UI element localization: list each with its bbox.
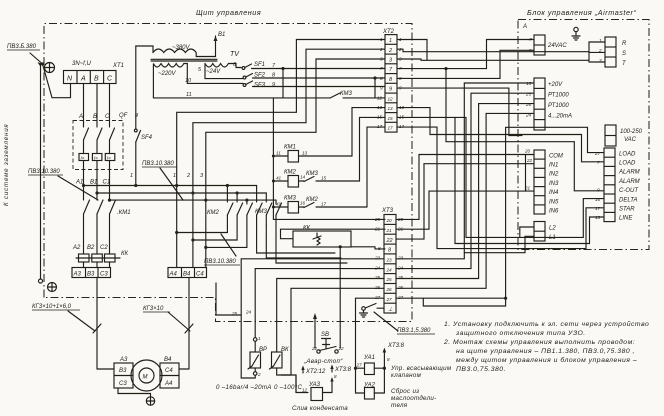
svg-text:ХТ2:12: ХТ2:12 <box>305 369 326 375</box>
wire XT3:24 left to BP1 <box>255 269 384 338</box>
svg-text:27: 27 <box>594 151 601 156</box>
svg-text:13: 13 <box>595 215 601 220</box>
contactor KM1 main contacts <box>84 200 116 254</box>
wire XT3:20 right to COM <box>396 155 526 220</box>
QF pole C <box>105 128 115 161</box>
svg-text:ALARM: ALARM <box>618 170 640 176</box>
svg-text:SB: SB <box>321 332 329 338</box>
svg-text:между щитом управления и б: между щитом управления и блоком управлен… <box>456 356 637 364</box>
wire XT2:17 right to STAR <box>397 127 604 249</box>
svg-text:1. Установку подключить к: 1. Установку подключить к эл. сети через… <box>444 320 649 328</box>
svg-text:ПВ3.1,5.380: ПВ3.1,5.380 <box>397 328 431 334</box>
wire 11 drop to KM3 aux <box>283 69 330 98</box>
svg-text:2: 2 <box>379 47 383 52</box>
svg-text:УА1: УА1 <box>363 355 375 361</box>
svg-text:9: 9 <box>380 86 383 91</box>
24VAC block <box>529 35 567 55</box>
wire XT2:13 down to KM1 <box>352 108 385 156</box>
svg-text:4: 4 <box>135 113 138 119</box>
svg-text:SF3: SF3 <box>254 83 266 89</box>
L2 L1 block <box>534 222 556 242</box>
ground bus wire (left) <box>41 62 45 279</box>
svg-text:16: 16 <box>300 201 306 206</box>
bus 3 <box>110 199 277 201</box>
svg-text:ПВ3.Б.380: ПВ3.Б.380 <box>7 44 37 50</box>
wire XT3:26 left to BK bottom <box>281 288 384 375</box>
KM3 bottoms staircase right <box>257 226 347 263</box>
cable КГ3х10 label <box>143 306 190 331</box>
solenoid YA3 <box>302 374 337 401</box>
label ПВ3.10.380 (lower) <box>204 234 240 265</box>
svg-text:DELTA: DELTA <box>619 198 637 204</box>
svg-text:на щите управления – ПВ1.1.3: на щите управления – ПВ1.1.380, ПВ3.0,75… <box>456 348 635 355</box>
svg-text:8: 8 <box>380 76 383 81</box>
wire 10 <box>187 82 243 84</box>
svg-text:24: 24 <box>245 310 252 315</box>
switch SF2 <box>243 74 385 79</box>
wire XT3:25 left to BK <box>277 279 384 353</box>
wire 7 branch to C-OUT <box>446 69 604 191</box>
svg-text:12: 12 <box>377 96 383 101</box>
svg-text:7: 7 <box>597 160 600 165</box>
svg-text:20: 20 <box>524 149 531 154</box>
node SF4 on bus1 <box>134 184 137 187</box>
label XT2:12 arrow <box>301 366 326 376</box>
motor terminal box left <box>114 363 133 388</box>
node wire8 <box>373 76 376 79</box>
wire: ground to XT1 N <box>43 64 71 98</box>
COM block stub wires <box>526 155 535 192</box>
svg-text:15: 15 <box>526 81 532 86</box>
RST block <box>598 37 627 67</box>
wire XT3:22 right to IN1 <box>396 164 526 239</box>
svg-text:R: R <box>622 41 627 47</box>
svg-text:ХТ2: ХТ2 <box>382 29 395 35</box>
svg-text:В1: В1 <box>90 180 97 186</box>
label XT3:8 arrow (SB) <box>330 365 351 374</box>
svg-text:23: 23 <box>386 258 393 263</box>
svg-text:КМ3: КМ3 <box>284 196 297 202</box>
svg-text:защитного отключения типа У: защитного отключения типа УЗО. <box>455 330 586 337</box>
terminal strip A4 B4 C4 <box>168 268 207 278</box>
LOAD outputs block <box>594 148 640 222</box>
KM2 bottoms staircase to phases <box>175 226 247 249</box>
coil KM3 + aux KM2 <box>273 196 367 214</box>
wire XT3:27 left to YA1/YA2 <box>354 298 384 393</box>
svg-text:КМ3: КМ3 <box>340 91 353 97</box>
pressure sensor BP <box>248 336 267 378</box>
QF pole A <box>79 128 89 161</box>
svg-text:26: 26 <box>525 102 532 107</box>
node bus1 A <box>82 184 85 187</box>
svg-text:13: 13 <box>302 151 308 156</box>
svg-text:IN2: IN2 <box>549 172 559 178</box>
svg-text:8: 8 <box>387 357 390 362</box>
svg-text:17: 17 <box>388 126 394 131</box>
svg-text:I>: I> <box>107 156 111 161</box>
svg-text:17: 17 <box>377 124 383 129</box>
svg-text:23: 23 <box>397 256 404 261</box>
wire XT3:26 right to 4-20mA <box>396 113 534 288</box>
secondary ~220V <box>153 64 187 98</box>
transformer core <box>151 59 217 61</box>
svg-text:13: 13 <box>388 106 394 111</box>
XT3 side wire numbers <box>374 217 404 300</box>
label ПВ3.1,5.380 <box>374 312 435 334</box>
wire phase B QF to KM1 <box>96 161 98 201</box>
svg-text:IN4: IN4 <box>549 190 559 196</box>
svg-text:7: 7 <box>529 37 532 42</box>
svg-text:А1: А1 <box>75 180 83 186</box>
node wire7 <box>281 67 284 70</box>
svg-text:А3: А3 <box>73 272 82 278</box>
node bus2 B <box>95 191 98 194</box>
svg-text:ВК: ВК <box>281 347 289 353</box>
svg-text:маслоотдели-: маслоотдели- <box>391 395 436 402</box>
svg-text:26: 26 <box>374 285 381 290</box>
svg-text:17: 17 <box>321 202 327 207</box>
COM/IN block <box>524 149 563 215</box>
svg-text:12: 12 <box>302 388 308 393</box>
wire branch to L2 <box>520 227 534 237</box>
svg-text:Сброс из: Сброс из <box>391 388 419 395</box>
svg-text:ХТ3:8: ХТ3:8 <box>387 343 405 349</box>
svg-text:IN6: IN6 <box>549 209 559 215</box>
svg-text:10: 10 <box>185 78 192 84</box>
svg-text:41: 41 <box>276 202 282 207</box>
svg-text:С3: С3 <box>100 272 108 278</box>
cable to motor (left) <box>93 278 114 370</box>
svg-text:100-250: 100-250 <box>620 129 643 135</box>
wire XT2:17 down to KM3 <box>367 127 385 207</box>
wire XT2:2 left to phase drop 2 <box>191 49 385 267</box>
svg-text:2. Монтаж схемы управления: 2. Монтаж схемы управления выполнить про… <box>443 338 635 346</box>
svg-text:В1: В1 <box>218 32 225 38</box>
solenoid YA1 <box>356 355 387 375</box>
svg-text:L2: L2 <box>549 226 556 232</box>
wire phase C QF to KM1 <box>109 161 111 201</box>
solenoid YA2 <box>363 383 384 400</box>
svg-text:ПВ3.10.380: ПВ3.10.380 <box>204 259 236 265</box>
svg-text:STAR: STAR <box>619 207 635 213</box>
wire XT2:9 to 100-250VAC <box>397 88 522 135</box>
wire XT2:3 left to phase drop 3 <box>204 59 385 268</box>
svg-text:9: 9 <box>597 188 600 193</box>
svg-text:КМ3: КМ3 <box>306 171 319 177</box>
svg-text:4...20mA: 4...20mA <box>548 114 572 120</box>
wire XT3:27 right to LOAD27 <box>396 127 604 298</box>
svg-text:22: 22 <box>311 346 318 351</box>
thermal relay KK heaters <box>76 254 120 262</box>
svg-text:SF1: SF1 <box>254 62 265 68</box>
100-250 VAC block <box>605 125 643 146</box>
svg-text:12: 12 <box>388 97 394 102</box>
bus 2 <box>97 192 266 194</box>
svg-text:КК: КК <box>303 226 311 232</box>
svg-text:клапаном: клапаном <box>391 372 422 379</box>
svg-text:КГ3×10: КГ3×10 <box>143 306 164 312</box>
wire BK to YA3 <box>277 375 308 393</box>
svg-text:РТ1000: РТ1000 <box>548 93 569 99</box>
svg-text:1: 1 <box>173 173 176 179</box>
svg-text:1: 1 <box>389 38 392 44</box>
svg-text:26: 26 <box>386 287 393 292</box>
svg-text:Блок управления „Airmaster“: Блок управления „Airmaster“ <box>527 8 636 17</box>
label ПВ3.Б.380 <box>7 44 42 66</box>
svg-text:25: 25 <box>525 92 532 97</box>
bus 1 <box>84 185 257 187</box>
svg-text:2: 2 <box>388 48 392 54</box>
wire XT2:2 to RST <box>397 49 589 52</box>
airmaster block border (dash-dot) <box>518 20 649 250</box>
wire XT3:21 right to IN4 <box>396 191 526 229</box>
wire phase C to QF <box>109 84 111 128</box>
svg-text:Слив конденсата: Слив конденсата <box>292 405 348 412</box>
svg-text:A: A <box>80 76 86 83</box>
cable to motor (right) <box>179 278 193 370</box>
switch SF4 <box>134 129 152 141</box>
svg-text:23: 23 <box>374 256 381 261</box>
wire 4 primary feed <box>136 46 153 186</box>
svg-text:11: 11 <box>276 151 281 156</box>
contactor KM3 main contacts <box>257 186 282 227</box>
wire XT2:15 down to KM2 <box>360 117 386 181</box>
svg-text:11: 11 <box>186 92 192 98</box>
svg-text:25: 25 <box>374 275 381 280</box>
wire XT3:20 from coils <box>273 218 385 220</box>
svg-text:1: 1 <box>380 37 383 42</box>
svg-text:27: 27 <box>386 297 393 302</box>
svg-text:0 –16bar/4 –20mA: 0 –16bar/4 –20mA <box>216 384 272 391</box>
wire YA3 feed bracket <box>216 283 296 393</box>
svg-text:9: 9 <box>389 87 392 93</box>
terminal block XT1 <box>64 71 117 84</box>
wire phase B to QF <box>96 84 98 128</box>
svg-text:1: 1 <box>258 336 261 341</box>
wire XT2:13 right to LOAD7 <box>397 108 604 162</box>
contact KM3 (to XT2:12) <box>330 93 385 98</box>
label ПВ3.10.380 (middle) <box>142 161 183 200</box>
wire 11 <box>153 97 283 99</box>
svg-text:VAC: VAC <box>624 137 637 143</box>
svg-text:КМ1: КМ1 <box>284 145 296 151</box>
svg-text:КГ3×10+1×6,0: КГ3×10+1×6,0 <box>32 304 72 310</box>
coil KM2 + aux KM3 <box>273 170 359 188</box>
svg-text:⊥: ⊥ <box>388 307 393 313</box>
svg-text:17: 17 <box>399 124 405 129</box>
svg-text:LOAD: LOAD <box>619 152 636 158</box>
svg-text:SF4: SF4 <box>141 135 153 141</box>
wire XT2:7 to 24VAC <box>397 40 534 71</box>
svg-text:17: 17 <box>595 206 601 211</box>
svg-text:14: 14 <box>300 175 306 180</box>
svg-text:C-OUT: C-OUT <box>619 188 639 194</box>
svg-text:~220V: ~220V <box>158 71 177 77</box>
svg-text:2: 2 <box>186 173 190 179</box>
svg-text:+20V: +20V <box>548 82 563 88</box>
switch SF1 <box>242 64 385 69</box>
wire loop bottom <box>423 297 507 306</box>
wire XT2:3 stub <box>397 59 427 60</box>
QF pole B <box>92 128 102 161</box>
terminal strip A3 B3 C3 <box>72 262 111 278</box>
svg-text:В2: В2 <box>87 245 95 251</box>
svg-text:24: 24 <box>397 266 404 271</box>
label Упр всасывающим клапаном <box>390 365 452 379</box>
svg-text:3N~f,U: 3N~f,U <box>72 61 92 67</box>
svg-text:8: 8 <box>334 374 337 379</box>
wire phase A QF to KM1 <box>83 161 85 201</box>
svg-text:М: М <box>143 375 148 381</box>
label ПВ3.10.380 (left) <box>28 169 98 200</box>
wire XT3:25 right to PT1000 <box>396 104 534 279</box>
svg-text:3: 3 <box>380 57 383 62</box>
wire to SF2 <box>205 78 243 80</box>
svg-text:22: 22 <box>386 238 393 244</box>
svg-text:20: 20 <box>386 218 393 223</box>
svg-text:I>: I> <box>94 156 98 161</box>
motor terminal box right <box>160 363 179 388</box>
svg-text:ПВ3.10.380: ПВ3.10.380 <box>142 161 174 167</box>
temperature sensor BK <box>270 347 290 375</box>
breaker QF dashed box <box>73 121 123 170</box>
svg-text:SF2: SF2 <box>254 73 266 79</box>
svg-text:15: 15 <box>388 116 394 121</box>
cable КГ3х10+1х6,0 label <box>32 304 95 331</box>
svg-text:А4: А4 <box>169 272 178 278</box>
svg-text:РТ1000: РТ1000 <box>548 103 569 109</box>
wire KK left stub <box>281 229 386 239</box>
wire XT3:23 left to BP2 <box>241 259 384 378</box>
transformer TV primary ~380V <box>153 36 218 57</box>
svg-text:КМ2: КМ2 <box>306 197 319 203</box>
wire branch to LINE <box>455 117 604 243</box>
RST feed wires <box>589 42 605 62</box>
wire KK to XT3:8 <box>339 245 385 249</box>
svg-text:20: 20 <box>374 217 381 222</box>
svg-text:КК: КК <box>121 251 129 257</box>
svg-text:8: 8 <box>529 48 532 53</box>
svg-text:22: 22 <box>338 346 345 351</box>
svg-text:16: 16 <box>595 197 601 202</box>
thermal contact KK box <box>293 226 351 248</box>
svg-text:~24V: ~24V <box>206 69 221 75</box>
button SB <box>311 247 344 353</box>
svg-text:I>: I> <box>81 156 85 161</box>
svg-text:„Авар-стоп“: „Авар-стоп“ <box>303 358 343 365</box>
svg-text:7: 7 <box>380 66 383 71</box>
svg-text:К системе заземления: К системе заземления <box>3 123 10 206</box>
svg-text:21: 21 <box>386 228 393 233</box>
svg-text:26: 26 <box>397 285 404 290</box>
secondary ~24V <box>205 64 241 79</box>
svg-text:41: 41 <box>276 176 282 181</box>
wire phase A to QF <box>83 84 85 128</box>
svg-text:IN1: IN1 <box>549 163 558 169</box>
svg-text:IN5: IN5 <box>549 200 559 206</box>
svg-text:ПВ3.0,75.380.: ПВ3.0,75.380. <box>456 366 506 373</box>
svg-text:A: A <box>522 24 527 30</box>
svg-text:24: 24 <box>386 268 393 273</box>
svg-text:А4: А4 <box>164 381 173 387</box>
wire XT2:8 to 24VAC <box>397 50 534 78</box>
svg-text:C: C <box>105 114 110 120</box>
svg-text:27: 27 <box>374 295 381 300</box>
svg-text:27: 27 <box>356 363 363 368</box>
svg-text:С4: С4 <box>165 368 173 374</box>
svg-text:8: 8 <box>378 246 381 251</box>
svg-text:Упр. всасывающим: Упр. всасывающим <box>390 365 452 372</box>
svg-text:B: B <box>93 114 97 120</box>
svg-text:КМ2: КМ2 <box>284 170 297 176</box>
control panel border (dash-dot) <box>44 24 412 322</box>
svg-text:ПВ3.10.380: ПВ3.10.380 <box>28 169 60 175</box>
earth symbol (airmaster) <box>572 27 580 40</box>
svg-text:S: S <box>622 51 626 57</box>
svg-text:~380V: ~380V <box>172 45 191 51</box>
label Сброс из маслоотделителя <box>391 388 436 409</box>
svg-text:LINE: LINE <box>619 216 633 222</box>
svg-text:В4: В4 <box>183 272 191 278</box>
svg-text:С2: С2 <box>100 245 108 251</box>
svg-text:27: 27 <box>397 295 404 300</box>
svg-text:IN3: IN3 <box>549 181 559 187</box>
wire YA to XT3:8 arrow <box>383 343 405 393</box>
wire XT3:23 right to +20V <box>396 83 534 259</box>
svg-text:А3: А3 <box>119 357 128 363</box>
svg-text:.КМ1: .КМ1 <box>117 210 131 216</box>
contactor KM2 main contacts <box>226 184 253 226</box>
svg-text:Щит управления: Щит управления <box>196 8 261 17</box>
svg-text:ХТ3:8: ХТ3:8 <box>334 367 352 373</box>
svg-text:9: 9 <box>272 82 275 88</box>
svg-text:24: 24 <box>374 266 381 271</box>
svg-text:А2: А2 <box>72 245 81 251</box>
svg-text:СОМ: СОМ <box>549 154 563 160</box>
svg-text:25: 25 <box>397 275 404 280</box>
svg-text:В3: В3 <box>87 272 95 278</box>
wire XT3:24 right to PT1000 <box>396 93 534 268</box>
svg-text:TV: TV <box>230 51 240 58</box>
svg-text:В4: В4 <box>164 357 172 363</box>
motor earth <box>118 388 155 405</box>
svg-text:B: B <box>94 76 99 83</box>
coil KM1 <box>273 145 352 163</box>
node bus3 C <box>108 199 111 202</box>
XT2 side wire numbers <box>377 37 405 129</box>
svg-text:LOAD: LOAD <box>619 161 636 167</box>
ground link at XT3 <box>360 304 385 318</box>
svg-text:QF: QF <box>119 113 128 119</box>
svg-text:1: 1 <box>130 173 133 179</box>
svg-text:25: 25 <box>386 277 393 282</box>
wire XT2:15 right to DELTA <box>397 117 604 237</box>
svg-text:В3: В3 <box>119 368 127 374</box>
wire XT2:1 left to phase drop 1 <box>175 40 385 268</box>
svg-text:КМ3: КМ3 <box>255 209 268 215</box>
svg-text:XT1: XT1 <box>112 63 124 69</box>
svg-text:22: 22 <box>526 158 533 163</box>
svg-text:A: A <box>78 114 83 120</box>
svg-text:L1: L1 <box>549 235 556 241</box>
earth circle (bottom left) <box>39 279 57 292</box>
svg-text:24VAC: 24VAC <box>547 43 567 49</box>
svg-text:С3: С3 <box>119 381 127 387</box>
svg-text:15: 15 <box>321 176 327 181</box>
svg-text:24: 24 <box>525 113 532 118</box>
svg-text:ALARM: ALARM <box>618 179 640 185</box>
switch SF3 <box>243 81 385 87</box>
